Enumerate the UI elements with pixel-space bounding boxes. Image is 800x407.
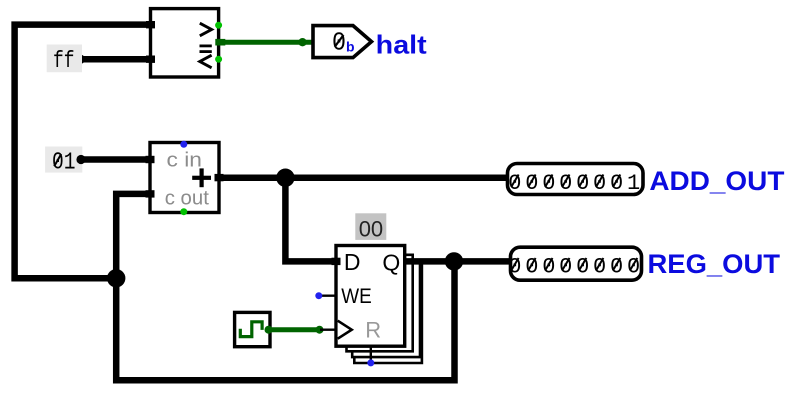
adder U2 bbox=[146, 143, 224, 213]
svg-text:00000000: 00000000 bbox=[508, 254, 644, 279]
clock CLK bbox=[235, 312, 270, 346]
junction J2 bbox=[107, 269, 125, 287]
wire 01 to adder input a bbox=[76, 155, 150, 164]
register REG main box bbox=[332, 246, 405, 347]
svg-text:c in: c in bbox=[167, 148, 202, 171]
probe ADD_OUT value box bbox=[508, 164, 644, 196]
constant 01 bbox=[45, 147, 82, 177]
svg-text:Q: Q bbox=[382, 250, 400, 276]
comparator output dot lt (unconnected) bbox=[215, 56, 222, 63]
wire register Q to REG_OUT bbox=[405, 258, 511, 265]
svg-text:D: D bbox=[344, 249, 361, 275]
register shadow box 2 bbox=[352, 263, 420, 357]
register R input stub with blue dot bbox=[367, 346, 374, 366]
register shadow box 3 bbox=[354, 265, 422, 364]
wire adder sum to ADD_OUT bbox=[219, 174, 508, 181]
wire adder input b from junction J2 bbox=[116, 194, 150, 278]
svg-text:b: b bbox=[346, 39, 355, 55]
wire net register-Q to comparator input a (left loop) bbox=[15, 25, 151, 279]
label halt bbox=[376, 30, 427, 60]
wire clock to register clock input bbox=[265, 326, 324, 334]
junction J1 bbox=[276, 169, 294, 187]
svg-text:ADD_OUT: ADD_OUT bbox=[649, 166, 785, 196]
svg-text:ff: ff bbox=[53, 48, 75, 74]
register clock input stub bbox=[320, 329, 336, 331]
svg-text:WE: WE bbox=[341, 284, 372, 308]
comparator U1 bbox=[146, 9, 219, 77]
constant ff bbox=[47, 45, 82, 75]
svg-text:c out: c out bbox=[165, 187, 209, 210]
comparator output dot gt (unconnected) bbox=[215, 22, 222, 29]
adder carry-out dot (unconnected output) bbox=[180, 208, 187, 215]
wire feedback loop J3 down and left to J2 bbox=[116, 261, 454, 380]
svg-text:00000001: 00000001 bbox=[508, 171, 644, 196]
wire J1 to register input D bbox=[285, 178, 336, 262]
label REG_OUT bbox=[648, 249, 781, 279]
register value label 00 bbox=[355, 213, 386, 241]
register WE input stub (unconnected) bbox=[315, 292, 336, 299]
label ADD_OUT bbox=[649, 166, 785, 196]
svg-text:halt: halt bbox=[376, 30, 427, 60]
output pin halt bbox=[313, 26, 372, 58]
svg-text:00: 00 bbox=[359, 216, 383, 241]
svg-text:REG_OUT: REG_OUT bbox=[648, 249, 781, 279]
adder carry-in dot (unconnected input) bbox=[180, 141, 187, 148]
probe REG_OUT value box bbox=[508, 247, 644, 280]
register shadow box 1 bbox=[347, 255, 413, 351]
junction J3 bbox=[445, 252, 463, 270]
wire ff to comparator input b bbox=[76, 55, 151, 64]
wire comparator eq output to halt pin (1-bit low) bbox=[215, 38, 313, 46]
svg-text:R: R bbox=[365, 318, 381, 343]
